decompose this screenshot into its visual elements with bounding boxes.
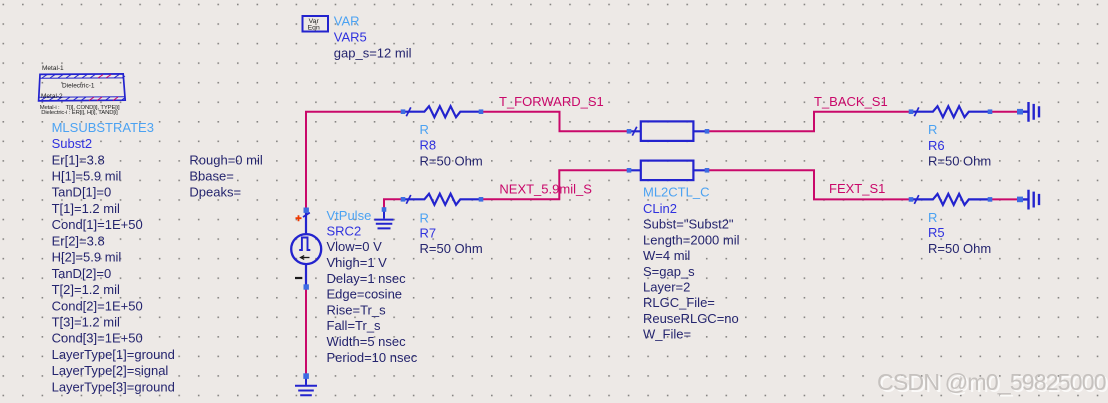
svg-text:Cond[2]=1E+50: Cond[2]=1E+50 [52,298,143,313]
svg-text:Rough=0 mil: Rough=0 mil [189,152,262,167]
svg-text:Delay=1 nsec: Delay=1 nsec [327,271,407,286]
svg-text:Metal-1: Metal-1 [42,65,64,72]
svg-text:Layer=2: Layer=2 [643,280,690,295]
svg-text:Cond[1]=1E+50: Cond[1]=1E+50 [52,217,143,232]
svg-text:Er[2]=3.8: Er[2]=3.8 [52,233,105,248]
svg-text:MLSUBSTRATE3: MLSUBSTRATE3 [52,120,154,135]
svg-text:R: R [928,210,937,225]
svg-text:R=50 Ohm: R=50 Ohm [420,241,483,256]
svg-text:Bbase=: Bbase= [189,169,233,184]
svg-text:TanD[1]=0: TanD[1]=0 [52,185,112,200]
svg-text:LayerType[3]=ground: LayerType[3]=ground [52,379,175,394]
svg-text:Metal-2: Metal-2 [41,93,63,100]
svg-text:Er[1]=3.8: Er[1]=3.8 [52,152,105,167]
svg-text:Subst2: Subst2 [52,136,92,151]
svg-text:Cond[3]=1E+50: Cond[3]=1E+50 [52,331,143,346]
svg-text:TanD[2]=0: TanD[2]=0 [52,266,112,281]
svg-text:RLGC_File=: RLGC_File= [643,295,715,310]
svg-text:T_BACK_S1: T_BACK_S1 [814,94,888,109]
svg-text:LayerType[2]=signal: LayerType[2]=signal [52,363,169,378]
svg-text:Length=2000 mil: Length=2000 mil [643,232,740,247]
svg-text:ML2CTL_C: ML2CTL_C [643,185,709,200]
svg-text:Vlow=0 V: Vlow=0 V [327,239,383,254]
svg-text:FEXT_S1: FEXT_S1 [829,181,885,196]
svg-text:R: R [928,122,937,137]
svg-text:Width=5 nsec: Width=5 nsec [327,334,407,349]
svg-text:LayerType[1]=ground: LayerType[1]=ground [52,347,175,362]
svg-text:T[3]=1.2 mil: T[3]=1.2 mil [52,315,120,330]
svg-text:CLin2: CLin2 [643,201,677,216]
svg-text:ReuseRLGC=no: ReuseRLGC=no [643,311,739,326]
svg-text:Period=10 nsec: Period=10 nsec [327,350,418,365]
svg-text:VAR5: VAR5 [334,30,367,45]
svg-text:R7: R7 [420,226,437,241]
svg-text:R=50 Ohm: R=50 Ohm [928,154,991,169]
svg-text:VtPulse: VtPulse [327,208,372,223]
svg-text:Eqn: Eqn [308,24,320,31]
svg-text:H[2]=5.9 mil: H[2]=5.9 mil [52,250,122,265]
svg-text:NEXT_5.9mil_S: NEXT_5.9mil_S [499,182,592,197]
svg-text:R8: R8 [420,138,437,153]
svg-text:SRC2: SRC2 [327,223,362,238]
svg-text:R5: R5 [928,225,945,240]
svg-text:H[1]=5.9 mil: H[1]=5.9 mil [52,169,122,184]
svg-text:R6: R6 [928,138,945,153]
svg-text:W_File=: W_File= [643,327,691,342]
svg-text:T[1]=1.2 mil: T[1]=1.2 mil [52,201,120,216]
svg-text:R=50 Ohm: R=50 Ohm [928,241,991,256]
svg-text:R: R [420,122,429,137]
svg-text:T_FORWARD_S1: T_FORWARD_S1 [499,94,604,109]
svg-text:Fall=Tr_s: Fall=Tr_s [327,318,382,333]
svg-text:Dpeaks=: Dpeaks= [189,185,241,200]
svg-text:Edge=cosine: Edge=cosine [327,287,403,302]
svg-text:VAR: VAR [334,14,360,29]
svg-text:R=50 Ohm: R=50 Ohm [420,153,483,168]
svg-text:T[2]=1.2 mil: T[2]=1.2 mil [52,282,120,297]
svg-text:W=4 mil: W=4 mil [643,248,690,263]
svg-text:Rise=Tr_s: Rise=Tr_s [327,302,387,317]
svg-text:R: R [420,211,429,226]
svg-text:Vhigh=1 V: Vhigh=1 V [327,255,388,270]
svg-text:Dielectric-1: Dielectric-1 [62,82,95,89]
svg-text:S=gap_s: S=gap_s [643,264,695,279]
svg-text:Subst="Subst2": Subst="Subst2" [643,217,734,232]
svg-text:gap_s=12 mil: gap_s=12 mil [334,46,412,61]
svg-text:CSDN @m0_59825000: CSDN @m0_59825000 [877,369,1106,395]
svg-text:Dielectric-i : ER[i], H[i], TA: Dielectric-i : ER[i], H[i], TAND[i] [41,110,118,116]
